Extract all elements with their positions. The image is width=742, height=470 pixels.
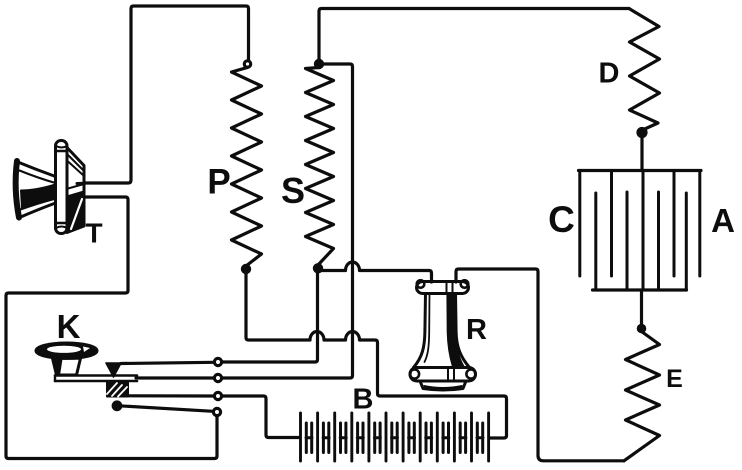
key pivot block (hatched) xyxy=(107,383,128,397)
wire E top to C/A bottom xyxy=(640,292,643,326)
cell C/A plate bottom 1 xyxy=(594,193,597,289)
svg-text:A: A xyxy=(711,202,735,239)
svg-text:S: S xyxy=(281,170,305,211)
resistor S xyxy=(306,68,334,266)
cell C/A plate center xyxy=(642,171,645,291)
receiver T xyxy=(16,141,85,234)
resistor P xyxy=(232,67,262,266)
terminal circle 3 xyxy=(214,392,221,399)
coil R xyxy=(410,280,476,390)
wire key lever to terminal 2 xyxy=(136,376,214,379)
terminal circle 1 xyxy=(214,358,221,365)
wire coil R right up and down right side to E bottom xyxy=(456,269,624,461)
node P bottom (dot) xyxy=(242,265,249,272)
cell C/A plate bottom 4 xyxy=(685,193,688,289)
svg-text:D: D xyxy=(599,57,620,89)
wire S bottom to coil R left xyxy=(321,262,432,282)
wire T upper to top rail to P top xyxy=(85,6,249,183)
svg-text:R: R xyxy=(466,314,487,346)
wire P bottom down, across with hops, down to battery right xyxy=(246,272,507,438)
cell C/A plate bottom 2 xyxy=(626,192,629,289)
wire key back dot to terminal 4 xyxy=(119,406,213,412)
cell C/A plate top 1 xyxy=(578,172,581,276)
key contact triangle xyxy=(106,363,121,377)
node E top (dot) xyxy=(638,325,644,331)
battery B xyxy=(301,413,489,461)
svg-text:K: K xyxy=(57,308,81,345)
wire S top right, down to terminal circle 2 xyxy=(222,64,353,378)
wire D to C/A top xyxy=(640,136,643,170)
wire key front contact to terminal 1 xyxy=(121,362,214,363)
cell C/A plate top 3 xyxy=(673,172,676,276)
wire terminal 3 to battery left xyxy=(222,396,299,438)
cell C/A plate top 4 xyxy=(698,172,701,276)
node S top (dot) xyxy=(315,60,322,67)
terminal circle 4 xyxy=(213,408,220,415)
wire key base to terminal 3 xyxy=(128,394,214,397)
terminal circle 2 xyxy=(214,374,221,381)
battery short plate pairs with links xyxy=(306,423,483,453)
svg-text:C: C xyxy=(548,199,575,240)
wire S bottom down to terminal circle 1 xyxy=(222,271,318,362)
cell C/A plate bottom 3 xyxy=(657,192,660,289)
svg-text:P: P xyxy=(207,163,230,202)
node P top (open circle) xyxy=(244,61,250,67)
svg-text:E: E xyxy=(666,365,683,393)
wire S top rail to D xyxy=(319,9,629,61)
key K xyxy=(36,343,137,397)
svg-text:B: B xyxy=(353,383,374,415)
cell C/A top bar xyxy=(579,169,702,172)
cell C/A bottom bar xyxy=(593,288,687,291)
svg-text:T: T xyxy=(85,218,102,249)
battery long plates xyxy=(301,413,489,461)
resistor D xyxy=(629,9,660,131)
node D bottom (dot) xyxy=(638,129,646,137)
node S bottom (dot) xyxy=(314,265,321,272)
wire T lower to left border, bottom, up to terminal circle 4 xyxy=(6,197,217,459)
cell C/A plate top 2 xyxy=(610,172,613,276)
resistor E xyxy=(624,332,660,461)
node key back (dot) xyxy=(113,402,121,410)
